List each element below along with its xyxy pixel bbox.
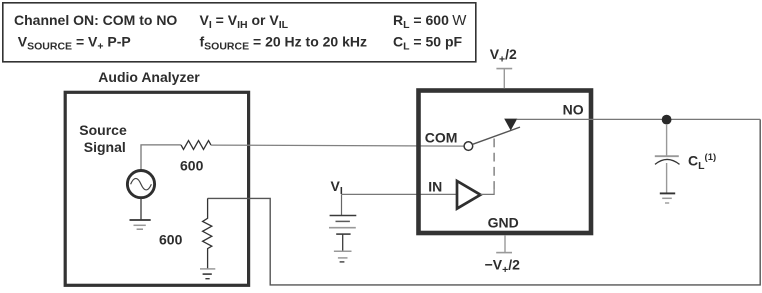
COM label (425, 130, 458, 146)
junction dot (662, 115, 672, 125)
IN label (428, 179, 442, 195)
audio analyzer box (65, 92, 248, 285)
GND label (488, 215, 519, 231)
buffer driver (457, 181, 481, 209)
condition text: VSOURCE (18, 33, 131, 52)
wire VI to IN buffer (342, 193, 458, 195)
condition text: RL = 600 W (393, 12, 467, 31)
svg-text:Signal: Signal (84, 139, 126, 155)
600 label vertical resistor (159, 231, 183, 247)
wire source to ground (140, 198, 142, 220)
svg-text:Audio Analyzer: Audio Analyzer (98, 69, 200, 85)
battery VI (329, 216, 356, 251)
NO wire (517, 118, 760, 120)
switch NO contact triangle (504, 119, 517, 131)
ground under vertical resistor (200, 269, 215, 279)
switch lever (473, 127, 520, 144)
svg-text:IN: IN (428, 179, 442, 195)
VI label (331, 178, 343, 197)
svg-text:NO: NO (563, 102, 584, 118)
CL(1) label (688, 152, 716, 172)
NO label (563, 102, 584, 118)
V+/2 supply bar (496, 69, 512, 89)
wire VI to battery (341, 194, 343, 215)
resistor R 600 horizontal (181, 141, 211, 150)
wire source to resistor (141, 145, 181, 171)
wire resistor to COM (211, 145, 464, 146)
test conditions box (3, 3, 476, 62)
CL capacitor (655, 124, 680, 193)
source V1 sine generator (127, 171, 154, 198)
COM contact circle (464, 142, 473, 151)
IC switch box (419, 91, 592, 234)
V+/2 label (490, 46, 517, 65)
dashed control line (493, 139, 495, 190)
svg-text:GND: GND (488, 215, 519, 231)
ground under CL (660, 193, 675, 203)
condition text: CL = 50 pF (393, 33, 463, 52)
ground under source (130, 220, 151, 229)
-V+/2 supply bar (496, 235, 512, 252)
-V+/2 label (485, 256, 521, 275)
condition text: fSOURCE (200, 33, 368, 52)
svg-text:Source: Source (79, 122, 127, 138)
condition text: VI = VIH or VIL (200, 12, 289, 31)
wire loop top (resistor to right) (208, 119, 761, 285)
Source Signal label (79, 122, 127, 155)
svg-text:Channel ON: COM to NO: Channel ON: COM to NO (14, 12, 177, 28)
ground under battery (334, 251, 352, 262)
condition text: Channel ON (14, 12, 177, 28)
svg-text:COM: COM (425, 130, 458, 146)
svg-text:600: 600 (180, 157, 204, 173)
600 label horizontal resistor (180, 157, 204, 173)
svg-text:600: 600 (159, 231, 183, 247)
resistor RL 600 vertical (203, 198, 212, 268)
buffer output wire (481, 190, 495, 195)
Audio Analyzer label (98, 69, 200, 85)
